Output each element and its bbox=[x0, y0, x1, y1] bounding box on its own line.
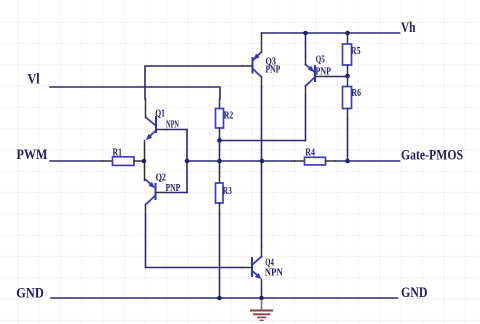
transistor Q4 bbox=[252, 257, 262, 280]
resistor R6 bbox=[343, 87, 352, 109]
wire gate rail bbox=[336, 160, 400, 162]
resistor R2 bbox=[216, 109, 224, 129]
wire Q3 collector to center rail bbox=[261, 87, 263, 161]
wire R2 to Q5 collector bbox=[220, 140, 306, 142]
transistor Q2 bbox=[146, 180, 156, 205]
pin R6.2 bbox=[347, 109, 349, 119]
ground bbox=[251, 300, 272, 320]
pin R3.1 bbox=[219, 161, 221, 173]
svg-text:R2: R2 bbox=[224, 111, 234, 122]
svg-text:R5: R5 bbox=[351, 46, 361, 57]
svg-text:NPN: NPN bbox=[265, 267, 284, 278]
junction rail-Q5 bbox=[303, 31, 308, 36]
svg-text:R3: R3 bbox=[223, 186, 232, 197]
pin Q3 base bbox=[243, 65, 253, 67]
wire Q4 emitter to GND bbox=[261, 290, 263, 299]
pin R6.1 bbox=[347, 76, 349, 87]
svg-text:Q5: Q5 bbox=[316, 55, 325, 66]
pin Q4 emitter bbox=[261, 280, 263, 290]
svg-text:NPN: NPN bbox=[166, 119, 179, 130]
wire R2 bottom bbox=[219, 138, 221, 141]
resistor R3 bbox=[216, 183, 224, 203]
junction GND Q4 bbox=[259, 296, 264, 301]
pin R2.1 bbox=[219, 99, 221, 109]
wire R6 to gate rail bbox=[347, 119, 349, 162]
wire base bus bbox=[186, 130, 188, 193]
pin Q4 collector bbox=[261, 247, 263, 257]
svg-text:R6: R6 bbox=[352, 88, 362, 99]
svg-text:Q1: Q1 bbox=[155, 109, 165, 120]
svg-text:R1: R1 bbox=[113, 147, 123, 158]
wire top rail Vh bbox=[262, 32, 400, 34]
resistor R4 bbox=[305, 157, 326, 165]
pin R3.2 bbox=[219, 203, 221, 213]
wire GND rail bbox=[51, 297, 398, 299]
junction R2 bottom bbox=[217, 138, 222, 143]
pin Q5 base bbox=[316, 76, 326, 78]
wire R2 junction to center rail bbox=[219, 141, 221, 162]
wire Vl to R2 bbox=[50, 87, 220, 99]
pin Q1 emitter bbox=[144, 141, 146, 162]
wire Q5 base to R5/R6 junction bbox=[326, 76, 348, 78]
pin R2.2 bbox=[219, 128, 221, 138]
pin R1.2 bbox=[134, 160, 144, 162]
junction center rail R3 bbox=[217, 159, 222, 164]
pin Q2 base bbox=[156, 192, 166, 194]
resistor R1 bbox=[113, 157, 135, 166]
svg-text:PNP: PNP bbox=[266, 65, 281, 76]
pin R4.1 bbox=[295, 160, 305, 162]
transistor Q1 bbox=[146, 117, 156, 140]
pin R1.1 bbox=[103, 160, 113, 162]
svg-text:GND: GND bbox=[401, 285, 428, 301]
wire Q1 base to bus bbox=[167, 129, 188, 131]
svg-text:GND: GND bbox=[16, 285, 44, 301]
resistor R5 bbox=[343, 44, 352, 65]
pin Q1 base bbox=[157, 129, 167, 131]
svg-text:Vl: Vl bbox=[28, 72, 40, 88]
wire center rail bbox=[187, 160, 262, 162]
svg-text:PWM: PWM bbox=[17, 147, 48, 163]
junction GND R3 bbox=[217, 296, 222, 301]
junction base bus to rail bbox=[185, 159, 190, 164]
svg-text:Q2: Q2 bbox=[156, 173, 166, 184]
junction R1-emitters bbox=[142, 159, 147, 164]
pin Q3 emitter bbox=[261, 33, 263, 52]
pin Q4 base bbox=[242, 267, 252, 269]
pin Q1 collector bbox=[145, 99, 147, 118]
wire Q2 collector to Q4 base bbox=[146, 215, 243, 268]
wire Q4 collector riser bbox=[261, 161, 263, 247]
wire Q1 collector to Q3 base bbox=[145, 66, 243, 99]
wire Q5 collector riser bbox=[305, 96, 307, 141]
pin Q3 collector bbox=[261, 77, 263, 87]
pin Q2 emitter bbox=[144, 161, 146, 180]
pin R5.1 bbox=[347, 33, 349, 44]
wire R3 to GND rail bbox=[219, 213, 221, 298]
wire PWM to R1 bbox=[50, 160, 103, 162]
wire Q2 base to bus bbox=[166, 192, 187, 194]
junction center rail Q3/Q4 bbox=[260, 159, 265, 164]
svg-text:Vh: Vh bbox=[401, 20, 416, 36]
pin Q5 emitter bbox=[305, 56, 307, 65]
wire Q5 emitter to rail bbox=[305, 33, 307, 56]
svg-text:R4: R4 bbox=[305, 148, 315, 159]
transistor Q5 bbox=[306, 65, 316, 87]
pin Q5 collector bbox=[305, 86, 307, 96]
pin R4.2 bbox=[326, 160, 336, 162]
wire center rail to R4 bbox=[262, 160, 295, 162]
transistor Q3 bbox=[253, 52, 262, 77]
pin Q2 collector bbox=[145, 204, 147, 214]
junction R5-R6-Q5base bbox=[345, 74, 350, 79]
junction rail-R5 bbox=[345, 31, 350, 36]
svg-text:Gate-PMOS: Gate-PMOS bbox=[401, 148, 463, 164]
pin R5.2 bbox=[347, 65, 349, 76]
junction gate rail bbox=[345, 159, 350, 164]
